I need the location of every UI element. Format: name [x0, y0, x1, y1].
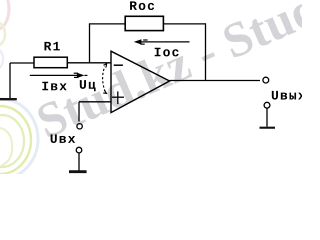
op-amp U1 triangle: [111, 51, 170, 112]
label Ioc: [155, 48, 179, 57]
wire Uvx bottom to ground: [78, 153, 80, 171]
label Uq differential voltage: [80, 80, 96, 91]
watermark arc top-left pink: [0, 0, 9, 29]
op-amp plus input sign: [112, 91, 124, 104]
wire feedback riser left: [89, 24, 91, 63]
watermark text Stud.kz - Stud: [35, 0, 320, 139]
arrow Uq dashed arc: [103, 64, 107, 94]
wire top feedback right segment: [163, 23, 205, 25]
op-amp minus input sign: [114, 64, 123, 66]
wire input left: [10, 62, 34, 64]
wire down to Uvx terminal: [78, 102, 80, 122]
label Roc: [130, 1, 154, 10]
arrow Ivx current: [30, 73, 88, 78]
wire R1 to op-amp inverting input: [67, 62, 111, 64]
ground bar bottom left: [69, 170, 87, 173]
resistor R1: [34, 57, 67, 67]
watermark arc top-left yellow: [0, 22, 5, 46]
wire feedback riser right: [205, 23, 207, 81]
label Uvyx: [272, 91, 306, 100]
wire output bottom to ground: [266, 108, 268, 127]
ground bar left: [0, 98, 17, 100]
terminal circle Uvx bottom: [76, 147, 82, 153]
wire output: [170, 80, 260, 82]
label Ivx: [42, 82, 66, 91]
terminal circle output bottom: [264, 102, 270, 108]
ground bar bottom right: [260, 127, 276, 129]
terminal circle Uvx top: [77, 124, 82, 129]
wire noninverting input: [79, 101, 111, 103]
watermark swirl bottom-left: [0, 99, 38, 179]
wire riser to ground left: [9, 63, 11, 99]
resistor Roc: [125, 16, 163, 30]
label Uvx: [51, 134, 76, 143]
arrow Ioc current: [134, 39, 190, 44]
watermark arc left faint blue: [0, 48, 3, 70]
wire top feedback left segment: [89, 23, 125, 25]
label R1: [44, 42, 59, 51]
terminal circle output: [263, 77, 269, 83]
